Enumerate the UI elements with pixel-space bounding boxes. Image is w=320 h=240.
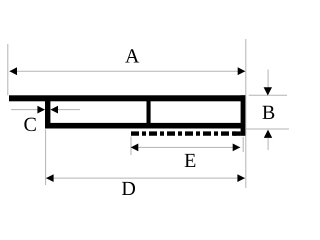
profile top flange: [9, 95, 246, 101]
profile right wall: [241, 95, 246, 136]
dimension line D: [46, 177, 245, 179]
arrow C right: [50, 106, 58, 114]
arrow B top: [264, 87, 272, 95]
dimension line E: [131, 146, 241, 148]
extension line E right: [242, 137, 244, 152]
label A: [125, 49, 139, 62]
dimension tail C left: [11, 109, 38, 111]
arrow D left: [46, 174, 54, 182]
profile middle divider: [147, 101, 151, 123]
arrow E right: [233, 144, 241, 152]
dashed strip under right chamber: [131, 131, 236, 135]
label C: [24, 118, 35, 131]
label B: [263, 106, 275, 119]
label D: [122, 182, 135, 195]
arrow E left: [131, 144, 139, 152]
arrow B bottom: [264, 130, 272, 138]
extension line E left: [130, 137, 132, 156]
dimension line A: [9, 70, 245, 72]
profile bottom wall: [45, 123, 246, 129]
label E: [185, 154, 196, 167]
arrow C left: [37, 106, 45, 114]
profile left wall: [45, 101, 50, 129]
extension line B bottom: [246, 128, 289, 130]
dimension tail B top: [267, 70, 269, 89]
extension line D left: [45, 130, 47, 186]
dimension tail B bottom: [267, 138, 269, 150]
extension line B top: [249, 94, 287, 96]
extension line right (A and D): [245, 39, 247, 188]
arrow D right: [237, 174, 245, 182]
dimension tail C right: [58, 109, 80, 111]
dashed strip last dash joining wall: [234, 131, 241, 135]
extension line A left: [7, 44, 9, 95]
arrow A right: [238, 67, 246, 75]
arrow A left: [9, 67, 17, 75]
